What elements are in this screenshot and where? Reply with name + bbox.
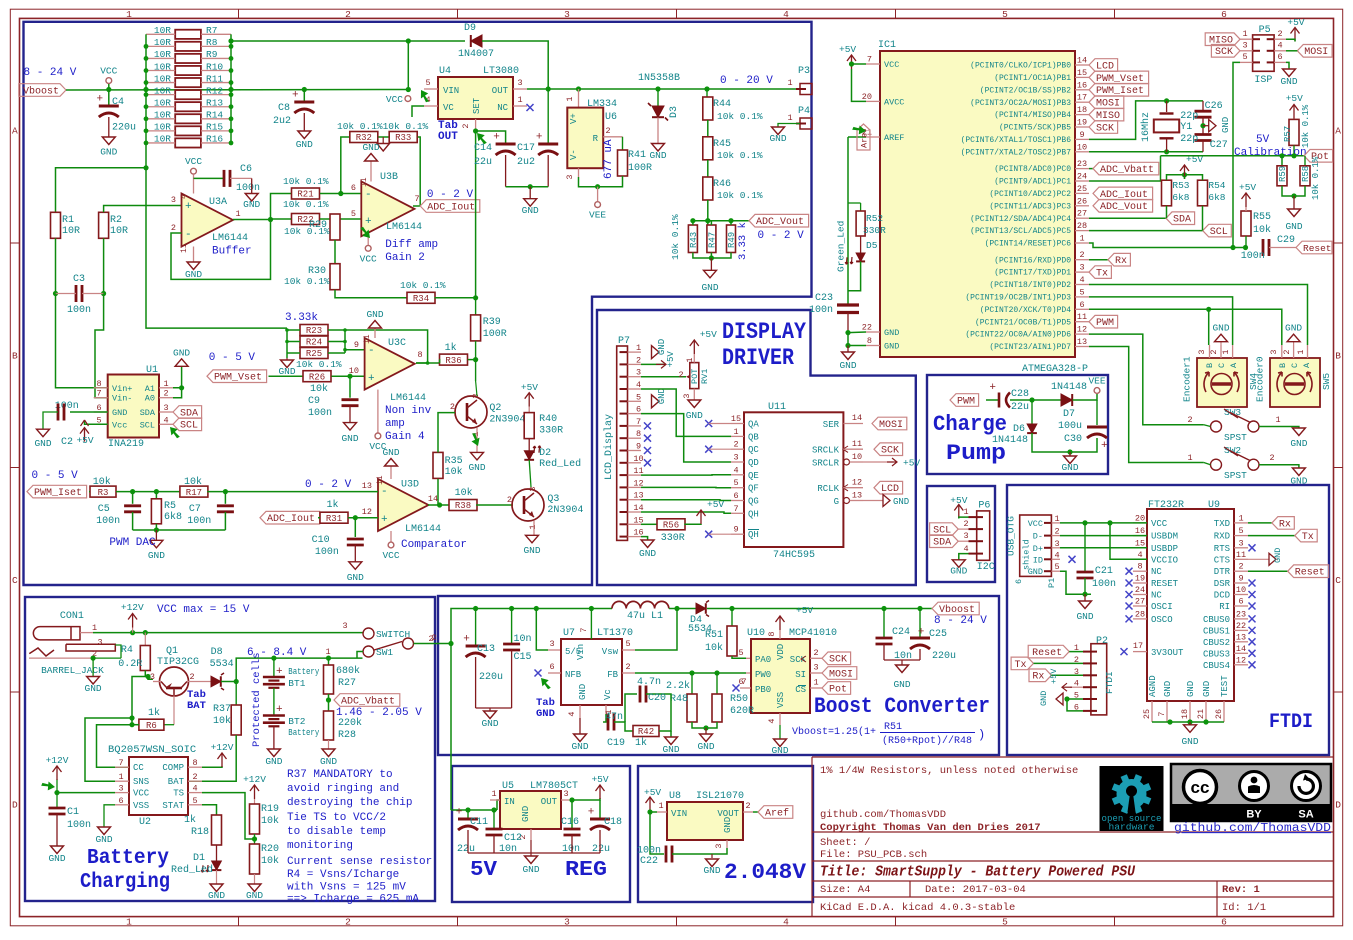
ground C2 (37, 429, 50, 437)
svg-text:R2: R2 (110, 215, 122, 226)
global label ADC_Vout (731, 220, 749, 222)
capacitor C20 (625, 694, 637, 722)
glabel Tx u9 (1248, 535, 1295, 537)
svg-text:Vcc: Vcc (112, 420, 127, 430)
svg-text:TIP32CG: TIP32CG (157, 657, 199, 668)
svg-text:hardware: hardware (1109, 822, 1155, 833)
svg-text:BT2: BT2 (288, 716, 305, 727)
svg-text:C6: C6 (240, 164, 252, 175)
wire PC6 reset (1089, 243, 1246, 248)
svg-text:Vboost=1.25(1+: Vboost=1.25(1+ (792, 726, 876, 738)
ground P1 (1079, 601, 1092, 609)
svg-text:18: 18 (1077, 105, 1087, 115)
svg-text:SCK: SCK (790, 655, 807, 665)
svg-text:677 uA: 677 uA (603, 139, 615, 179)
glabel MOSI isp (1297, 45, 1332, 58)
boost converter box (438, 596, 999, 755)
glabel LCD (1089, 59, 1118, 72)
svg-text:Title: SmartSupply - Battery P: Title: SmartSupply - Battery Powered PSU (820, 865, 1135, 881)
svg-text:CS: CS (795, 685, 806, 695)
power +12V C1 (56, 779, 58, 793)
svg-text:DRIVER: DRIVER (722, 345, 794, 371)
svg-text:+5V: +5V (76, 435, 93, 446)
svg-text:13: 13 (1236, 632, 1246, 642)
svg-text:+5V: +5V (707, 499, 724, 510)
svg-text:R53: R53 (1172, 180, 1189, 191)
ground BT2 (273, 727, 275, 750)
svg-text:GND: GND (522, 205, 539, 216)
resistor R40 (524, 413, 534, 439)
ground isp (1286, 62, 1289, 69)
resistor R20 (250, 844, 260, 874)
svg-text:5: 5 (1238, 526, 1243, 536)
svg-text:D5: D5 (866, 240, 878, 251)
svg-text:CBUS4: CBUS4 (1203, 661, 1230, 671)
svg-text:Diff amp: Diff amp (385, 239, 438, 251)
wire R53 to SDA (1166, 206, 1168, 218)
svg-text:4: 4 (1054, 550, 1059, 560)
svg-text:1: 1 (1242, 29, 1247, 39)
svg-text:(PCINT17/TXD)PD1: (PCINT17/TXD)PD1 (994, 269, 1071, 278)
switch SW1 (363, 628, 374, 639)
svg-text:100n: 100n (96, 516, 120, 527)
svg-text:Q3: Q3 (547, 494, 559, 505)
svg-text:(PCINT18/INT0)PD2: (PCINT18/INT0)PD2 (989, 281, 1071, 290)
svg-text:SI: SI (795, 670, 806, 680)
transistor Q2 (455, 396, 487, 428)
battery charging box (25, 597, 435, 901)
svg-text:Red_Led: Red_Led (539, 458, 581, 470)
svg-text:3: 3 (1197, 349, 1207, 354)
cc by sa badge (1171, 764, 1331, 821)
svg-text:R56: R56 (663, 521, 679, 531)
wire D8 node (221, 681, 236, 683)
svg-text:P1: P1 (1047, 578, 1057, 588)
svg-text:D: D (12, 799, 18, 810)
svg-text:Tx: Tx (1014, 660, 1026, 671)
svg-text:1N5358B: 1N5358B (638, 73, 680, 84)
svg-text:(R50+Rpot)//R48: (R50+Rpot)//R48 (882, 735, 972, 747)
svg-text:2: 2 (678, 370, 683, 380)
glabel PWM_Vset ic (1089, 71, 1149, 84)
ground C1 (51, 846, 64, 854)
svg-text:+5V: +5V (700, 329, 717, 340)
svg-text:PWM_Vset: PWM_Vset (214, 373, 262, 384)
glabel PWM pump (950, 394, 979, 407)
svg-text:QE: QE (748, 471, 759, 481)
svg-text:4.7n: 4.7n (637, 677, 661, 688)
wire to U7 pin3 (534, 606, 539, 611)
svg-text:26: 26 (1077, 196, 1087, 206)
capacitor C26 (1202, 101, 1204, 110)
svg-text:3: 3 (564, 916, 570, 927)
svg-text:C5: C5 (98, 504, 110, 515)
svg-text:1: 1 (1054, 514, 1059, 524)
svg-text:C11: C11 (470, 817, 488, 828)
svg-text:10R: 10R (154, 85, 171, 96)
svg-text:Date: 2017-03-04: Date: 2017-03-04 (925, 884, 1026, 896)
svg-text:10k: 10k (261, 855, 279, 867)
svg-text:ISP: ISP (1254, 75, 1272, 86)
svg-text:3: 3 (163, 403, 168, 413)
no-connect NFB (548, 672, 561, 674)
svg-text:1: 1 (565, 96, 575, 101)
wire R1 C3 (55, 238, 57, 293)
svg-text:0 - 2 V: 0 - 2 V (305, 479, 352, 491)
svg-text:(PCINT19/OC2B/INT1)PD3: (PCINT19/OC2B/INT1)PD3 (965, 294, 1071, 303)
svg-text:10R: 10R (154, 49, 171, 60)
wire jack pin3 (115, 645, 121, 658)
svg-text:VIN: VIN (671, 809, 687, 819)
svg-text:RCLK: RCLK (817, 484, 839, 494)
svg-text:Battery: Battery (288, 727, 319, 738)
capacitor C27 (1195, 133, 1212, 136)
svg-text:+: + (185, 201, 192, 213)
svg-text:R8: R8 (206, 37, 218, 48)
svg-text:LM6144: LM6144 (405, 524, 441, 535)
svg-text:C18: C18 (604, 817, 622, 828)
glabel Aref vertical (857, 124, 870, 150)
resistor R18 (212, 815, 222, 845)
svg-text:14: 14 (1236, 644, 1246, 654)
svg-text:MOSI: MOSI (1304, 47, 1328, 58)
svg-text:4: 4 (733, 465, 738, 475)
erc arrow U1 SCL (170, 427, 180, 438)
svg-text:28: 28 (1135, 609, 1145, 619)
wire p7 pin13 to QG (641, 499, 731, 502)
wire R17 to comparator (207, 491, 225, 493)
svg-text:QB: QB (748, 432, 759, 442)
svg-text:BAT: BAT (187, 700, 206, 712)
svg-text:4: 4 (963, 544, 968, 554)
svg-text:10k 0.1%: 10k 0.1% (670, 214, 681, 260)
resistor ladder R7-R16 (144, 25, 234, 147)
svg-text:7: 7 (1157, 711, 1167, 716)
svg-text:GND: GND (243, 199, 260, 210)
svg-text:22p: 22p (1180, 111, 1198, 122)
svg-text:1: 1 (1221, 349, 1231, 354)
ground P4 (778, 124, 800, 128)
svg-text:R19: R19 (261, 804, 279, 815)
svg-text:10k 0.1%: 10k 0.1% (400, 280, 446, 291)
glabel ADC_Vbatt ic (1089, 168, 1093, 170)
svg-text:11: 11 (852, 439, 862, 449)
svg-text:+: + (918, 627, 925, 639)
wire dac gnd (133, 529, 226, 531)
wire R23 bus right (328, 329, 345, 331)
svg-text:GND: GND (1212, 323, 1229, 334)
svg-text:11: 11 (180, 243, 189, 253)
svg-text:R13: R13 (206, 98, 223, 109)
wire Q1 base (173, 696, 175, 725)
wire C3 to U1 Vin+ (56, 294, 108, 388)
svg-text:3: 3 (1238, 538, 1243, 548)
svg-text:monitoring: monitoring (287, 840, 353, 852)
analog section box (24, 22, 812, 585)
svg-text:3: 3 (1242, 41, 1247, 51)
svg-text:(PCINT16/RXD)PD0: (PCINT16/RXD)PD0 (994, 256, 1071, 265)
svg-text:25: 25 (1142, 709, 1152, 719)
svg-text:PA0: PA0 (755, 655, 771, 665)
svg-text:1: 1 (126, 916, 132, 927)
resistor R48 (691, 673, 693, 694)
pin U7 Vsw (622, 649, 635, 651)
svg-text:1: 1 (787, 78, 792, 88)
svg-text:R5: R5 (164, 501, 176, 512)
glabel SDA pullup (1166, 212, 1195, 225)
svg-text:GND: GND (34, 438, 51, 449)
svg-text:FT232R: FT232R (1148, 500, 1184, 511)
svg-text:GND: GND (1039, 691, 1049, 706)
ic U9 FT232R (1147, 509, 1234, 701)
svg-text:D: D (1335, 799, 1341, 810)
svg-text:R12: R12 (206, 85, 223, 96)
glabel ADC_Vbatt bat (328, 694, 330, 711)
svg-text:Buffer: Buffer (212, 246, 252, 258)
crystal circuit (1089, 101, 1203, 139)
net Aref (848, 136, 866, 138)
svg-text:DTR: DTR (1214, 567, 1231, 577)
svg-text:GND: GND (697, 741, 714, 752)
svg-text:R43: R43 (689, 232, 699, 248)
wire R30 to R34 (335, 290, 408, 298)
svg-text:1: 1 (235, 209, 240, 219)
svg-text:R48: R48 (670, 694, 688, 705)
svg-text:0.2R: 0.2R (118, 659, 142, 670)
svg-text:100n: 100n (67, 820, 91, 831)
svg-text:10R: 10R (154, 110, 171, 121)
svg-text:10k 0.1%: 10k 0.1% (717, 111, 763, 122)
svg-text:Rx: Rx (1032, 672, 1044, 683)
svg-text:1: 1 (1275, 415, 1280, 425)
display driver box (597, 310, 916, 585)
svg-text:10R: 10R (154, 37, 171, 48)
svg-text:LM7805CT: LM7805CT (530, 781, 578, 792)
svg-text:MOSI: MOSI (829, 669, 853, 680)
svg-text:3: 3 (517, 78, 522, 88)
wire PD2 to encoder0 (1089, 285, 1308, 346)
svg-text:2: 2 (1277, 29, 1282, 39)
svg-text:+5V: +5V (1286, 93, 1303, 104)
svg-text:U9: U9 (1208, 500, 1220, 511)
svg-text:+5V: +5V (903, 458, 920, 469)
svg-text:22p: 22p (1180, 134, 1198, 145)
ground p7 pin16 (641, 537, 648, 540)
svg-text:ATMEGA328-P: ATMEGA328-P (1022, 364, 1088, 375)
wire R19 R20 (254, 834, 256, 844)
svg-text:GND: GND (468, 462, 485, 473)
svg-text:+: + (365, 216, 372, 228)
ground encoder1 (1220, 342, 1222, 345)
svg-text:10k 0.1%: 10k 0.1% (283, 199, 329, 210)
connector P1 USB_OTG (1020, 515, 1052, 576)
power +5V pullups (1167, 175, 1203, 180)
svg-text:(PCINT4/MISO)PB4: (PCINT4/MISO)PB4 (994, 111, 1071, 120)
svg-text:GND: GND (1285, 221, 1302, 232)
svg-text:330R: 330R (661, 533, 685, 544)
svg-text:+: + (989, 382, 996, 394)
wire PC1 to pot (1089, 156, 1161, 181)
svg-text:D3: D3 (669, 106, 680, 118)
svg-text:D2: D2 (539, 448, 551, 459)
svg-text:1: 1 (963, 507, 968, 517)
svg-text:2: 2 (431, 633, 436, 643)
glabel Pot u10 (822, 682, 851, 695)
svg-text:STAT: STAT (162, 801, 184, 811)
svg-text:Red_Led: Red_Led (171, 864, 213, 876)
power +5V U10 (779, 616, 781, 630)
svg-text:Charging: Charging (80, 871, 170, 894)
svg-text:14: 14 (852, 413, 862, 423)
svg-text:C4: C4 (112, 97, 124, 108)
svg-text:C29: C29 (1277, 235, 1295, 246)
capacitor C11 (467, 810, 469, 818)
ground above U3C (374, 328, 376, 338)
svg-text:Reset: Reset (1032, 648, 1062, 659)
wire jack pin1 rail (80, 632, 93, 634)
svg-text:3: 3 (733, 453, 738, 463)
svg-text:100u: 100u (1058, 421, 1082, 432)
svg-text:QH: QH (748, 509, 759, 519)
svg-text:U6: U6 (605, 112, 617, 123)
svg-text:10R: 10R (154, 98, 171, 109)
svg-text:ADC_Iout: ADC_Iout (267, 514, 315, 525)
svg-text:10k: 10k (213, 715, 231, 727)
svg-text:3: 3 (342, 621, 347, 631)
p5v marker p7 pin2 (641, 363, 664, 365)
svg-text:R39: R39 (483, 317, 501, 328)
svg-text:27: 27 (1077, 209, 1087, 219)
wire SW1 common (357, 652, 363, 659)
svg-text:2u2: 2u2 (517, 157, 535, 168)
capacitor C8 (302, 87, 307, 92)
svg-text:3: 3 (563, 789, 568, 799)
svg-text:Comparator: Comparator (401, 539, 467, 551)
svg-text:R54: R54 (1208, 180, 1225, 191)
svg-text:SRCLR: SRCLR (812, 459, 840, 469)
svg-text:2: 2 (1079, 250, 1084, 260)
wire Vboost rail (66, 89, 408, 92)
no-connect right U9 (1249, 544, 1256, 551)
svg-text:(PCINT14/RESET)PC6: (PCINT14/RESET)PC6 (985, 240, 1072, 249)
wire L1 D4 (669, 608, 696, 610)
svg-text:SCL: SCL (1210, 227, 1228, 238)
svg-text:Battery: Battery (87, 847, 169, 870)
svg-text:GND: GND (347, 572, 364, 583)
svg-text:R26: R26 (309, 372, 325, 382)
pins U10 right (810, 657, 822, 659)
op-amp U3C (365, 338, 415, 390)
svg-text:C: C (1290, 363, 1300, 368)
svg-text:QH: QH (748, 530, 759, 540)
svg-text:-: - (185, 229, 192, 241)
svg-text:VEE: VEE (1088, 376, 1105, 387)
svg-text:3: 3 (528, 486, 538, 491)
svg-text:9: 9 (636, 442, 641, 452)
svg-text:10k: 10k (445, 466, 463, 478)
svg-text:+5V: +5V (1239, 182, 1256, 193)
svg-text:GND: GND (341, 433, 358, 444)
svg-text:OUT: OUT (492, 86, 509, 96)
svg-text:6: 6 (1221, 916, 1227, 927)
svg-text:Charge: Charge (933, 412, 1007, 437)
oshw logo (1100, 766, 1164, 833)
svg-text:10: 10 (1077, 142, 1087, 152)
svg-text:SWITCH: SWITCH (376, 629, 410, 640)
svg-text:SW5: SW5 (1321, 373, 1332, 390)
svg-text:+: + (276, 704, 283, 716)
svg-text:GND: GND (893, 497, 909, 507)
svg-text:1: 1 (733, 427, 738, 437)
ic U1 INA219 (108, 375, 159, 438)
svg-text:Rx: Rx (1115, 256, 1127, 267)
svg-text:15: 15 (1077, 68, 1087, 78)
svg-text:C22: C22 (640, 856, 658, 867)
svg-text:SRCLK: SRCLK (812, 446, 840, 456)
svg-text:ID: ID (1033, 555, 1043, 565)
svg-text:22u: 22u (1011, 402, 1029, 413)
wire isp pin5 down (1233, 62, 1240, 247)
svg-text:10k 0.1%: 10k 0.1% (1301, 104, 1311, 148)
svg-text:R37: R37 (213, 704, 231, 715)
ground tap R32 R33 (377, 144, 390, 152)
ftdi box (1007, 485, 1329, 755)
wire p6 pin4 gnd (959, 554, 969, 560)
power VEE (597, 187, 599, 201)
svg-text:D1: D1 (193, 853, 205, 864)
gnd marker crystal (1203, 125, 1209, 127)
glabel Reset cal (1296, 241, 1332, 254)
rotary encoder SW5 (1270, 358, 1320, 407)
glabel Tx p2 (1011, 657, 1033, 670)
svg-text:23: 23 (1077, 159, 1087, 169)
svg-text:C10: C10 (312, 535, 330, 546)
svg-text:GND: GND (208, 890, 225, 901)
svg-text:): ) (978, 728, 985, 742)
svg-text:1: 1 (491, 789, 496, 799)
wire boost input (451, 609, 612, 644)
wire PD6 to SW3 (1089, 334, 1204, 425)
pin U7 Vc network (605, 705, 607, 714)
svg-text:10R: 10R (154, 73, 171, 84)
svg-text:5: 5 (1002, 9, 1008, 20)
svg-text:GND: GND (649, 150, 666, 161)
ground Q3 (533, 521, 535, 535)
svg-text:1: 1 (1187, 453, 1192, 463)
svg-text:R10: R10 (206, 61, 223, 72)
svg-text:100n: 100n (67, 305, 91, 316)
global label ADC_Iout comparator (260, 511, 320, 524)
svg-text:R16: R16 (206, 134, 223, 145)
svg-text:Vin+: Vin+ (112, 384, 132, 394)
svg-text:1: 1 (1079, 234, 1084, 244)
svg-text:GND: GND (839, 360, 856, 371)
svg-text:Vc: Vc (603, 689, 613, 700)
svg-text:Tx: Tx (1302, 532, 1314, 543)
svg-text:C1: C1 (67, 807, 79, 818)
svg-text:5: 5 (192, 796, 197, 806)
diode D7 (1061, 394, 1072, 406)
svg-text:U3C: U3C (388, 338, 406, 349)
svg-text:1: 1 (813, 678, 818, 688)
svg-text:GND: GND (382, 447, 399, 458)
svg-text:TXD: TXD (1214, 519, 1230, 529)
op-amp U3A (191, 168, 197, 174)
svg-text:R4 = Vsns/Icharge: R4 = Vsns/Icharge (287, 869, 399, 881)
charge pump box (927, 375, 1108, 474)
svg-text:10n: 10n (514, 634, 532, 645)
i2c box (927, 486, 995, 582)
